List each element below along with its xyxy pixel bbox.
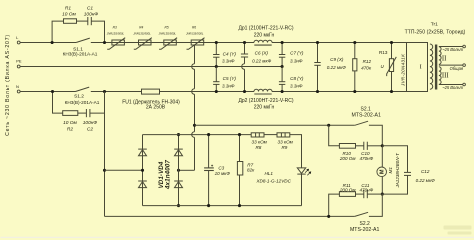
svg-text:R1: R1 [65, 5, 71, 11]
switch S2.2 [350, 212, 380, 233]
svg-text:КН3(В)-201А-А1: КН3(В)-201А-А1 [63, 51, 98, 56]
junction L-R1C1 left [51, 41, 54, 44]
junction motor top [381, 144, 384, 147]
fuse FU1 [122, 89, 180, 111]
transformer Tr1 winding III [439, 67, 450, 85]
transformer Tr1 primary winding [430, 44, 433, 89]
svg-text:JNR13S/500L: JNR13S/500L [186, 32, 204, 36]
junction motor feed tap [193, 124, 196, 127]
svg-text:КН3(В)-201А-А1: КН3(В)-201А-А1 [65, 100, 100, 105]
svg-text:XD8-1-G-12VDC: XD8-1-G-12VDC [255, 178, 291, 183]
capacitor C9 [314, 43, 346, 92]
wire N rail left [20, 91, 75, 93]
junction C9 bottom [316, 90, 319, 93]
capacitor C7 [279, 43, 304, 67]
svg-text:C2: C2 [87, 127, 93, 133]
capacitor C1 [84, 5, 99, 25]
capacitor C5 [213, 67, 236, 92]
svg-text:C12: C12 [421, 169, 430, 174]
capacitor C10 [359, 142, 373, 161]
capacitor C11 [359, 183, 373, 198]
svg-text:III: III [442, 73, 450, 80]
junction C5 bottom [215, 90, 218, 93]
svg-text:R2: R2 [67, 127, 73, 133]
junction C6 bottom [243, 90, 246, 93]
motor M1 [377, 153, 400, 189]
resistor R8 [251, 133, 267, 150]
svg-text:Сеть ~230 Вольт (Вилка AS-207: Сеть ~230 Вольт (Вилка AS-207) [5, 34, 11, 136]
svg-text:R4: R4 [139, 26, 143, 30]
junction R10 tap [327, 124, 330, 127]
junction R7 bottom [238, 204, 241, 207]
wire N to bridge AC1 and S2.2 [105, 92, 355, 217]
transformer Tr1 core [435, 45, 437, 90]
svg-text:М: М [379, 169, 385, 174]
svg-text:C6 (X): C6 (X) [255, 51, 269, 56]
svg-text:R8: R8 [255, 145, 261, 150]
svg-text:0.22 мкФ: 0.22 мкФ [327, 65, 347, 70]
svg-text:N: N [16, 84, 19, 89]
junction R12 top [353, 41, 356, 44]
svg-text:82к: 82к [247, 168, 255, 173]
junction C4 bottom [215, 65, 218, 68]
diode VD3 [174, 149, 183, 156]
svg-text:PE: PE [16, 59, 22, 64]
svg-text:JNR13S/500L: JNR13S/500L [133, 32, 151, 36]
capacitor C3 [204, 135, 230, 206]
capacitor C12 [382, 146, 435, 194]
svg-text:3.3нФ: 3.3нФ [222, 83, 235, 88]
varistor R13 [379, 43, 405, 92]
resistor R11 [339, 183, 357, 196]
junction R13 bottom [390, 90, 393, 93]
svg-text:100нФ: 100нФ [84, 12, 99, 18]
wire N rail right [272, 91, 407, 93]
wire bridge AC1 [105, 169, 143, 171]
svg-text:II: II [442, 55, 447, 62]
capacitor C4 [213, 43, 236, 67]
svg-text:33 кОм: 33 кОм [278, 140, 294, 145]
capacitor C8 [279, 67, 304, 92]
wire R11 branch [329, 194, 383, 216]
svg-text:C1: C1 [87, 5, 93, 11]
wire secondary common [439, 65, 464, 71]
terminal secondary common [463, 64, 466, 67]
bottom edge strip [1, 237, 474, 239]
diode VD2 [138, 181, 147, 188]
node L (mains terminal) [16, 35, 20, 44]
junction R13 top [390, 41, 393, 44]
svg-text:JA1238H2B0N-T: JA1238H2B0N-T [395, 153, 400, 189]
terminal secondary top [463, 45, 466, 48]
svg-text:R12: R12 [363, 59, 372, 64]
wire R2C2 branch [53, 92, 105, 114]
svg-text:R13: R13 [379, 50, 388, 55]
svg-text:220 мкГн: 220 мкГн [254, 32, 275, 38]
node PE (mains terminal) [16, 59, 22, 68]
wire indicator bottom [143, 205, 302, 207]
svg-text:100нФ: 100нФ [83, 120, 98, 126]
svg-text:3.3нФ: 3.3нФ [290, 83, 303, 88]
resistor R10 [339, 144, 357, 162]
diode VD1 [138, 149, 147, 156]
svg-text:Др1 (2100НТ-221-V-RC): Др1 (2100НТ-221-V-RC) [238, 26, 293, 32]
junction motor bottom [381, 193, 384, 196]
svg-text:C5 (Y): C5 (Y) [223, 76, 237, 81]
svg-text:200 Ом: 200 Ом [339, 156, 357, 161]
svg-text:33 кОм: 33 кОм [252, 140, 268, 145]
svg-text:C8 (Y): C8 (Y) [290, 76, 304, 81]
svg-text:ТТП-250 (2х25В, Тороид): ТТП-250 (2х25В, Тороид) [405, 30, 466, 36]
wire secondary bottom [439, 85, 464, 90]
watermark [444, 226, 472, 235]
wire L rail left [20, 42, 76, 44]
diode VD4 [174, 181, 183, 188]
svg-text:MTS-202-A1: MTS-202-A1 [350, 227, 380, 233]
wire PE rail [20, 66, 282, 68]
svg-text:JNR13S/500L: JNR13S/500L [107, 32, 125, 36]
resistor R9 [277, 133, 294, 150]
svg-text:220 мкГн: 220 мкГн [254, 105, 275, 111]
svg-text:JVR-20N431K: JVR-20N431K [400, 53, 405, 87]
svg-text:S1.2: S1.2 [74, 94, 84, 100]
wire indicator top [143, 135, 302, 168]
transformer Tr1 winding II [439, 47, 447, 65]
junction C3 bottom [207, 204, 210, 207]
svg-text:10 Ом: 10 Ом [62, 12, 76, 18]
junction bridge AC1 tap [103, 169, 106, 172]
svg-text:470нФ: 470нФ [359, 188, 373, 193]
svg-text:MTS-202-A1: MTS-202-A1 [351, 113, 381, 119]
junction L-R1C1 right [103, 41, 106, 44]
wire bridge right column [178, 135, 180, 206]
resistor R2 [63, 111, 78, 133]
svg-text:M1: M1 [388, 167, 393, 174]
junction bridge left mid [141, 169, 144, 172]
svg-text:R3: R3 [113, 26, 117, 30]
junction C4 top [215, 41, 218, 44]
svg-text:10 мкФ: 10 мкФ [215, 171, 231, 176]
svg-text:~25 Вольт: ~25 Вольт [442, 85, 463, 90]
svg-text:470нФ: 470нФ [359, 156, 373, 161]
switch S2.1 [351, 107, 381, 126]
wire S2.1 to motor [369, 125, 382, 146]
inductor Dr1 [238, 26, 293, 46]
varistor R5 [159, 26, 178, 50]
resistor R1 [62, 5, 76, 23]
wire L rail right [272, 42, 407, 44]
junction R7 top [238, 133, 241, 136]
varistor R3 [107, 26, 126, 50]
resistor R7 [237, 135, 255, 206]
label mains [5, 34, 11, 136]
capacitor C2 [83, 109, 98, 133]
svg-text:Др2 (2100НТ-221-V-RC): Др2 (2100НТ-221-V-RC) [238, 98, 293, 104]
wire N rail mid [91, 91, 254, 93]
switch S1.2 [65, 87, 100, 105]
svg-text:C4 (Y): C4 (Y) [223, 52, 237, 57]
junction C3 top [207, 133, 210, 136]
junction bridge AC2 [177, 169, 180, 172]
wire L to bridge AC2 [179, 45, 195, 170]
junction bridge right top [177, 133, 180, 136]
wire LED bottom [301, 175, 303, 206]
svg-text:I: I [420, 64, 422, 71]
transformer Tr1 primary box [405, 22, 466, 92]
wire motor bottom lead [381, 177, 383, 195]
svg-text:Tr1: Tr1 [431, 22, 438, 28]
svg-text:~25 Вольт: ~25 Вольт [442, 47, 463, 52]
junction C9 top [316, 41, 319, 44]
svg-text:0.22 мкФ: 0.22 мкФ [416, 178, 436, 183]
svg-text:R6: R6 [192, 26, 196, 30]
capacitor C6 [241, 43, 272, 92]
junction C8 bottom [281, 90, 284, 93]
svg-text:HL1: HL1 [264, 171, 273, 176]
label 4x1n4007 [165, 160, 172, 190]
junction R11 tap [327, 215, 330, 218]
svg-text:0.22 мкФ: 0.22 мкФ [252, 59, 272, 64]
svg-text:200 Ом: 200 Ом [339, 188, 357, 193]
led HL1 [255, 168, 311, 183]
wire bridge left column [142, 135, 144, 206]
label VD1-VD4 [158, 161, 165, 188]
wire motor feed [195, 124, 355, 126]
svg-text:470к: 470к [361, 66, 372, 71]
svg-text:2А 250В: 2А 250В [146, 105, 166, 111]
svg-text:C7 (Y): C7 (Y) [290, 51, 304, 56]
svg-text:C9 (X): C9 (X) [330, 57, 344, 62]
varistor R4 [133, 26, 152, 50]
junction C6 top [243, 41, 246, 44]
node N (mains terminal) [16, 84, 20, 93]
junction bridge right bottom [177, 204, 180, 207]
resistor R12 [353, 43, 372, 92]
inductor Dr2 [238, 89, 293, 110]
varistor R6 [186, 26, 205, 50]
svg-text:3.3нФ: 3.3нФ [222, 59, 235, 64]
svg-text:JNR13S/500L: JNR13S/500L [159, 32, 177, 36]
junction N-R2C2 left [51, 90, 54, 93]
wire R1C1 branch [52, 21, 104, 42]
junction C7 top [281, 41, 284, 44]
junction N-R2C2 right [103, 90, 106, 93]
wire secondary top [439, 47, 464, 52]
wire L rail mid [91, 42, 254, 44]
svg-text:R7: R7 [247, 162, 253, 167]
svg-text:C3: C3 [218, 165, 224, 170]
wire motor top lead [381, 146, 383, 167]
junction R12 bottom [353, 90, 356, 93]
wire R10 branch [329, 125, 383, 146]
svg-text:R5: R5 [165, 26, 169, 30]
switch S1.1 [63, 38, 98, 56]
junction C7 bottom [281, 65, 284, 68]
svg-text:Общая: Общая [450, 66, 464, 71]
svg-text:3.3нФ: 3.3нФ [290, 59, 303, 64]
wire S2.2 to motor [369, 194, 382, 216]
terminal secondary bottom [463, 83, 466, 86]
svg-text:R9: R9 [281, 145, 287, 150]
svg-text:10 Ом: 10 Ом [63, 120, 77, 126]
svg-text:4x1n4007: 4x1n4007 [165, 160, 172, 190]
